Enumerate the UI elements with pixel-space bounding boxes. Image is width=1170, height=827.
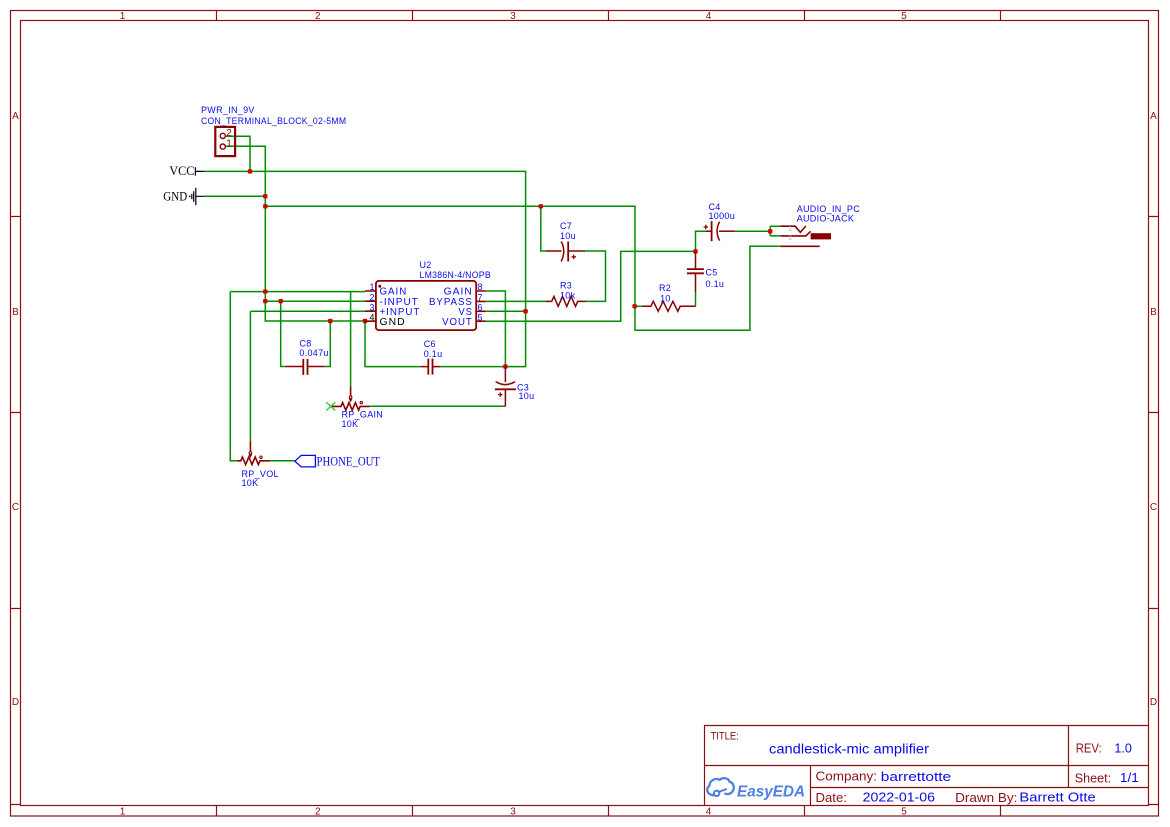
svg-text:0.1u: 0.1u [424,349,443,359]
svg-text:R3: R3 [560,281,572,291]
svg-text:0.047u: 0.047u [299,348,328,358]
svg-text:VCC: VCC [169,164,194,178]
svg-text:6: 6 [478,302,483,312]
svg-text:R2: R2 [659,283,671,293]
svg-text:A: A [12,111,19,122]
svg-text:4: 4 [706,11,712,22]
svg-text:REV:: REV: [1076,742,1102,756]
svg-text:C7: C7 [560,221,572,231]
svg-text:4: 4 [706,807,712,818]
svg-text:1.0: 1.0 [1114,741,1132,756]
svg-text:10K: 10K [342,419,359,429]
svg-text:B: B [12,307,19,318]
svg-text:D: D [1150,697,1157,708]
svg-text:VOUT: VOUT [442,317,473,328]
svg-text:C5: C5 [706,267,718,277]
svg-text:2: 2 [315,807,321,818]
svg-text:3: 3 [369,302,374,312]
svg-text:RP_GAIN: RP_GAIN [342,410,384,420]
svg-text:CON_TERMINAL_BLOCK_02-5MM: CON_TERMINAL_BLOCK_02-5MM [201,116,346,126]
svg-text:10K: 10K [242,478,259,488]
svg-text:PWR_IN_9V: PWR_IN_9V [201,105,255,115]
svg-text:4: 4 [369,312,374,322]
svg-text:Company:: Company: [816,769,878,784]
svg-text:AUDIO-JACK: AUDIO-JACK [797,214,855,224]
svg-text:GND: GND [163,189,187,203]
svg-text:TITLE:: TITLE: [711,731,739,743]
svg-text:Drawn By:: Drawn By: [955,790,1017,805]
svg-text:1000u: 1000u [709,211,736,221]
svg-text:C: C [12,502,19,513]
svg-text:1/1: 1/1 [1120,770,1139,785]
svg-text:10u: 10u [519,391,535,401]
svg-text:0.1u: 0.1u [706,279,725,289]
svg-text:2022-01-06: 2022-01-06 [863,790,935,805]
svg-text:5: 5 [901,807,907,818]
svg-text:A: A [1150,111,1157,122]
svg-text:C6: C6 [424,339,436,349]
svg-text:Barrett Otte: Barrett Otte [1019,790,1095,805]
svg-text:1: 1 [369,282,374,292]
svg-text:GND: GND [380,317,406,328]
svg-text:10: 10 [660,293,671,303]
svg-text:candlestick-mic amplifier: candlestick-mic amplifier [769,741,929,757]
svg-text:2: 2 [226,128,232,139]
svg-text:Date:: Date: [816,790,847,805]
svg-text:5: 5 [478,312,483,322]
svg-text:1: 1 [120,807,126,818]
svg-text:D: D [12,697,19,708]
svg-text:LM386N-4/NOPB: LM386N-4/NOPB [420,270,492,280]
svg-text:U2: U2 [420,260,432,270]
svg-text:2: 2 [315,11,321,22]
svg-text:10k: 10k [560,291,576,301]
svg-text:EasyEDA: EasyEDA [737,784,805,801]
svg-text:3: 3 [510,807,516,818]
svg-text:C: C [1150,502,1157,513]
svg-text:barrettotte: barrettotte [881,769,951,784]
svg-text:5: 5 [901,11,907,22]
svg-text:1: 1 [226,139,232,150]
svg-text:B: B [1150,307,1157,318]
svg-text:Sheet:: Sheet: [1075,770,1111,785]
svg-text:3: 3 [510,11,516,22]
svg-text:2: 2 [788,235,792,242]
svg-text:10u: 10u [560,231,576,241]
svg-text:1: 1 [788,225,792,232]
svg-text:7: 7 [478,292,483,302]
svg-text:2: 2 [369,292,374,302]
svg-text:1: 1 [120,11,126,22]
svg-text:PHONE_OUT: PHONE_OUT [317,454,381,469]
svg-text:8: 8 [478,282,483,292]
